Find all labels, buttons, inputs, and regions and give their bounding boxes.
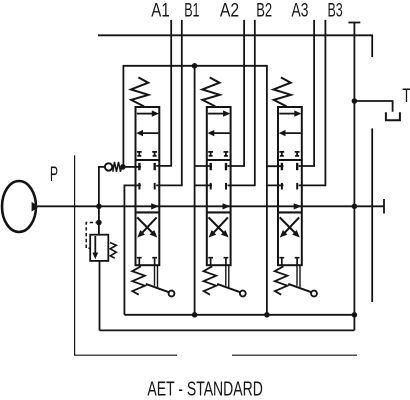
position1 arrow left [214, 132, 230, 134]
pump flow arrow [32, 202, 39, 212]
svg-text:B2: B2 [256, 0, 272, 21]
blocked port stubs top [279, 152, 299, 157]
valve body boxes [207, 107, 231, 265]
main line arrow through valve [223, 203, 231, 209]
junction dot pilot [96, 220, 102, 226]
valve section V1 [131, 77, 174, 296]
blocked port stubs bottom [208, 258, 228, 266]
crossed arrows position3 [137, 217, 152, 233]
valve2 feed port line [195, 165, 212, 167]
valve section V3 [274, 77, 317, 296]
tank return riser [353, 23, 355, 331]
position1 arrow right [137, 113, 153, 115]
relief valve pilot line (dashed) [86, 223, 99, 249]
pump P [2, 181, 36, 232]
blocked port stubs bottom [137, 258, 157, 266]
valve3 feed port line [267, 165, 284, 167]
tank bus 1 [124, 314, 354, 316]
svg-text:P: P [50, 163, 58, 186]
svg-text:T: T [402, 86, 410, 107]
relief valve spring [110, 243, 116, 259]
lever knob circle [240, 291, 246, 297]
relief valve body [90, 235, 108, 261]
valve1 drain line [124, 185, 140, 314]
junction dot main-relief [96, 204, 102, 210]
crossed arrows position3 [209, 217, 224, 233]
blocked port stubs top [137, 152, 157, 157]
junction dot tank main [352, 204, 358, 210]
gallery junction dot valve2 [192, 63, 198, 69]
work port line A3 [299, 20, 314, 166]
check valve ball circle [105, 163, 112, 170]
relief valve drain [99, 261, 101, 331]
valve3 drain port line [267, 184, 284, 186]
relief valve feed [98, 206, 100, 234]
tank branch line [354, 101, 392, 112]
junction dot check-gallery [120, 164, 126, 170]
svg-text:A2: A2 [220, 0, 239, 21]
enclosure frame [75, 155, 357, 355]
main line arrow through valve [151, 203, 159, 209]
svg-text:A3: A3 [292, 0, 309, 21]
valve spool spring bottom [132, 266, 145, 294]
lever bar [217, 284, 240, 292]
blocked side ports A-level [211, 163, 226, 170]
blocked side ports A-level [282, 163, 297, 170]
work port line B1 [156, 20, 182, 186]
tank riser top plug bar [349, 22, 361, 24]
valve body boxes [136, 107, 160, 265]
svg-text:B1: B1 [184, 0, 199, 21]
blocked port stubs top [208, 152, 228, 157]
junction dot valve2 bus [192, 312, 198, 318]
carryover line [371, 128, 373, 302]
junction dot tank bus [352, 312, 358, 318]
lever stems [297, 265, 300, 287]
valve2 feed/drain lane [194, 66, 196, 315]
junction dot valve3 bus [264, 312, 270, 318]
position1 arrow right [208, 113, 224, 115]
work port line B3 [299, 20, 326, 186]
parallel gallery line [123, 66, 267, 315]
work port line B2 [228, 20, 255, 186]
valve section V2 [202, 77, 245, 296]
svg-text:A1: A1 [151, 0, 169, 21]
work port line A1 [156, 20, 171, 166]
svg-text:AET - STANDARD: AET - STANDARD [147, 378, 263, 400]
blocked side ports B-level [139, 183, 154, 190]
relief valve internal arrow [94, 236, 96, 254]
check valve spring [113, 162, 122, 172]
lever bar [146, 284, 169, 292]
junction dot tank branch [352, 98, 358, 104]
blocked side ports A-level [139, 163, 154, 170]
main line arrow through valve [294, 203, 302, 209]
svg-text:B3: B3 [328, 0, 343, 21]
valve2 drain port line [195, 184, 212, 186]
work port line A2 [228, 20, 245, 166]
lever stems [155, 265, 158, 287]
crossed arrows position3 [280, 217, 295, 233]
position1 arrow left [142, 132, 158, 134]
tank bus 2 [100, 329, 355, 331]
valve spool spring top [274, 77, 291, 106]
lever knob circle [311, 291, 317, 297]
lever stems [226, 265, 229, 287]
blocked side ports B-level [282, 183, 297, 190]
lever knob circle [169, 291, 175, 297]
valve spool spring top [202, 77, 219, 106]
main pressure line [38, 205, 384, 207]
valve spool spring bottom [275, 266, 288, 294]
position1 arrow right [279, 113, 295, 115]
valve spool spring top [131, 77, 148, 106]
valve1 feed port line [126, 166, 141, 168]
valve body boxes [278, 107, 302, 265]
check valve feed riser [99, 167, 105, 206]
valve spool spring bottom [204, 266, 217, 294]
tank gallery line T (top) [98, 35, 372, 57]
lever bar [288, 284, 311, 292]
main line end plug bar [383, 199, 385, 214]
blocked port stubs bottom [279, 258, 299, 266]
blocked side ports B-level [211, 183, 226, 190]
tank symbol [386, 112, 400, 120]
position1 arrow left [285, 132, 301, 134]
